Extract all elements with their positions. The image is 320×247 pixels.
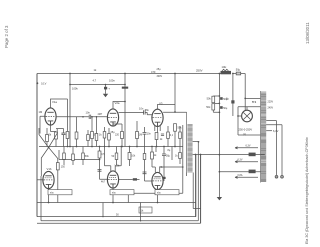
capacitor C16 V6 grid xyxy=(143,172,147,174)
node mid rail x99.5 xyxy=(99,146,101,148)
node mid rail x109 xyxy=(108,146,110,148)
wire x104.5 xyxy=(104,127,106,147)
capacitor C6 x164 lower xyxy=(162,154,166,156)
wire V3 cathode leads xyxy=(155,126,160,132)
wire HV box xyxy=(238,107,261,135)
svg-text:s/a: s/a xyxy=(50,191,54,195)
wire x67.5 vertical xyxy=(67,99,69,147)
node OT tap xyxy=(198,141,200,143)
wire V2b top leads xyxy=(105,147,122,172)
wire x180 xyxy=(179,126,181,147)
node x175 y112 xyxy=(174,111,176,113)
output transformer Tr2 primary xyxy=(187,112,193,172)
wire V1 cathode down xyxy=(51,125,57,132)
capacitor C15 V3 bypass xyxy=(161,134,164,136)
wire x88 xyxy=(87,130,89,147)
wire x76.5 vertical xyxy=(76,117,78,147)
wire fuse to B+ corner xyxy=(241,74,246,111)
node B+ x175 xyxy=(174,73,176,75)
node screen rail x70 xyxy=(69,84,71,86)
node x96.5 y117 xyxy=(96,116,98,118)
wire x175 vertical upper xyxy=(174,74,176,113)
cathode blob x164 xyxy=(162,177,165,179)
wire bottom loop 1 xyxy=(37,155,196,217)
node B+ x232.9 xyxy=(232,73,234,75)
wire x116.5 lower xyxy=(116,147,118,166)
node B+ x219.4 xyxy=(219,73,221,75)
wire top B+ rail xyxy=(37,73,221,75)
resistor R17 x180 xyxy=(179,132,182,139)
pin label box V6 xyxy=(155,190,179,195)
node y171.7 junction xyxy=(219,171,221,173)
svg-text:1k: 1k xyxy=(154,154,157,157)
wire rectifier top xyxy=(246,107,248,111)
node mid rail x137 xyxy=(136,146,138,148)
svg-text:4,7: 4,7 xyxy=(93,79,97,83)
selector terminal 2 xyxy=(281,175,284,178)
svg-text:+: + xyxy=(108,87,110,91)
wire C2 to ground xyxy=(105,85,107,92)
wire V3 cathode 2 xyxy=(156,140,158,147)
resistor R3 x47 xyxy=(46,135,49,142)
wire x180 lower xyxy=(179,147,181,165)
capacitor C3 coupling xyxy=(89,115,91,119)
fuse box on y171.7 xyxy=(249,170,256,174)
resistor R21 x144.5 lower xyxy=(143,154,146,160)
svg-text:25µ: 25µ xyxy=(157,68,162,71)
resistor R23 divider top xyxy=(212,96,215,103)
wire heater arrow y177.3 xyxy=(235,176,258,178)
svg-text:10n: 10n xyxy=(147,133,152,136)
fuse Si1 xyxy=(236,72,241,75)
wire V3 cathode xyxy=(157,126,159,132)
input terminal node xyxy=(36,82,38,84)
node x140.6 bus xyxy=(140,220,141,221)
wire heater arrow y161.7 xyxy=(235,161,258,163)
svg-text:50µ: 50µ xyxy=(223,107,228,110)
wire R26 down xyxy=(57,170,59,203)
choke L1 xyxy=(221,71,232,74)
svg-text:2k: 2k xyxy=(49,134,52,137)
wire V2b cathode down xyxy=(112,188,114,202)
svg-text:50µ: 50µ xyxy=(166,155,171,158)
wire x168 xyxy=(167,126,169,147)
wire choke to fuse xyxy=(233,73,237,75)
svg-text:4k7: 4k7 xyxy=(101,181,106,184)
wire V2 anode up xyxy=(113,102,125,109)
wire x152 xyxy=(151,147,153,153)
node divider mid xyxy=(219,103,221,105)
wire x175 vertical lower xyxy=(174,131,176,146)
wire x47 upper xyxy=(46,128,48,147)
resistor R26 on cross arm xyxy=(56,163,59,170)
wire x70 vertical xyxy=(69,74,71,147)
resistor R18 x64 lower xyxy=(63,153,66,160)
svg-text:100k: 100k xyxy=(72,87,78,91)
resistor R9 x152 lower xyxy=(151,152,154,159)
node mid rail x175 xyxy=(174,146,176,148)
wire V3 anode y112 to OT xyxy=(163,111,187,113)
wire y159.5 link xyxy=(59,150,100,160)
svg-text:240V: 240V xyxy=(268,106,274,109)
node mid rail x76.5 xyxy=(76,146,78,148)
svg-text:0,1V: 0,1V xyxy=(41,82,47,86)
capacitor C11 electrolytic xyxy=(231,100,234,103)
resistor R2 cathode xyxy=(55,132,58,139)
resistor R28 x96.5 xyxy=(95,134,98,141)
svg-text:1k: 1k xyxy=(160,138,163,141)
wire x109 xyxy=(108,128,110,147)
wire x103 drop xyxy=(102,203,104,217)
pin label box V2b xyxy=(110,190,134,195)
wire x129.5 lower xyxy=(129,147,131,167)
wire x144.5 xyxy=(144,127,146,147)
svg-text:10H: 10H xyxy=(222,65,227,69)
wire x99.5 lower xyxy=(100,147,108,180)
node x103 bus xyxy=(102,216,103,217)
wire rectifier plate left xyxy=(238,115,242,117)
svg-text:10n: 10n xyxy=(139,106,144,110)
capacitor C5 x144.5 xyxy=(143,133,147,135)
wire x144.5 lower xyxy=(145,147,152,182)
tube V6 xyxy=(152,172,163,189)
wire x219.4 vertical xyxy=(218,74,220,196)
node screen rail x125 xyxy=(124,84,126,86)
node gnd x113 xyxy=(112,202,114,204)
wire divider branch xyxy=(213,96,219,112)
tube V2a xyxy=(107,109,118,126)
svg-text:1M: 1M xyxy=(39,110,43,114)
resistor R12 on x175 xyxy=(174,124,177,132)
svg-text:50k: 50k xyxy=(206,106,211,109)
svg-text:V1b: V1b xyxy=(47,167,52,171)
node V6 anode join xyxy=(182,166,184,168)
connector box below bus xyxy=(139,207,152,213)
resistor R8 x137 xyxy=(136,132,139,139)
resistor R27 x73 lower xyxy=(72,154,75,161)
node HT x245.2 xyxy=(244,98,246,100)
pin label box V1b xyxy=(48,190,72,195)
wire screen rail y84.5 xyxy=(70,84,125,86)
resistor R20 x116.5 lower xyxy=(115,153,118,160)
wire V1 grid left xyxy=(40,116,45,133)
wire x73 lower xyxy=(72,147,74,166)
resistor R5 x92 xyxy=(91,132,94,139)
svg-text:10n: 10n xyxy=(86,110,91,114)
wire PT tap y130.7 xyxy=(266,130,272,132)
resistor R6 x122 xyxy=(121,132,124,139)
capacitor C14 electrolytic xyxy=(220,106,223,109)
wire x83 lower xyxy=(82,147,84,166)
power transformer Tr1 winding xyxy=(261,91,267,183)
node rect plate xyxy=(237,115,239,117)
svg-text:1k: 1k xyxy=(94,68,97,72)
node rail2 elcap xyxy=(105,84,107,86)
resistor R15 x109 xyxy=(108,134,111,141)
wire OT sec drop x195.5 xyxy=(195,155,197,217)
node x125 y101.5 xyxy=(124,101,126,103)
wire V1 anode coupling y117 xyxy=(56,116,89,118)
wire x164 lower xyxy=(163,147,165,182)
wire x125 lower xyxy=(124,85,126,147)
wire C1 xyxy=(56,129,64,147)
rectifier V7 xyxy=(242,110,253,122)
node x104.5 rail xyxy=(104,146,105,147)
node mid rail x67.5 xyxy=(67,146,69,148)
svg-text:Page 2 of 3: Page 2 of 3 xyxy=(4,25,9,48)
node B+ x70 xyxy=(69,73,71,75)
wire mid rail y146.5 xyxy=(39,146,183,148)
wire ground bus y202.5 xyxy=(37,202,196,204)
node mid rail x70 xyxy=(69,146,71,148)
svg-text:1k: 1k xyxy=(99,134,102,137)
svg-text:250-0-250V: 250-0-250V xyxy=(239,128,253,132)
node OT sec x195.5 xyxy=(195,154,197,156)
wire R2 to rail xyxy=(55,139,57,147)
capacitor C7 coupling xyxy=(144,110,146,114)
svg-text:0,8A: 0,8A xyxy=(238,174,243,177)
svg-text:50k: 50k xyxy=(85,155,90,158)
svg-text:50: 50 xyxy=(116,214,119,217)
node mid rail x129.5 xyxy=(129,146,131,148)
capacitor C13 electrolytic xyxy=(220,97,223,100)
resistor R22 x180 lower xyxy=(179,153,182,159)
svg-text:8µ: 8µ xyxy=(168,149,171,152)
node mid rail x152 xyxy=(151,146,153,148)
wire x122 xyxy=(113,124,122,147)
svg-text:10k: 10k xyxy=(131,155,136,158)
wire x137 xyxy=(136,121,138,147)
wire heater arrow y147.8 xyxy=(235,147,258,149)
svg-text:470: 470 xyxy=(151,70,156,74)
tube V2b xyxy=(107,171,118,188)
svg-text:6,3V: 6,3V xyxy=(246,145,251,148)
svg-text:300V: 300V xyxy=(157,75,163,78)
node mid rail x122 xyxy=(121,146,123,148)
wire cross left arm xyxy=(39,128,49,176)
svg-text:(L): (L) xyxy=(243,133,246,136)
node B+ x125 xyxy=(124,73,126,75)
node mid rail x92 xyxy=(91,146,93,148)
wire V1b grid stub xyxy=(37,179,43,181)
node gnd x157.5 xyxy=(157,202,159,204)
resistor R14 x104.5 xyxy=(103,132,106,139)
node divider bottom xyxy=(219,111,221,113)
wire OT sec drop x200.5 xyxy=(200,155,202,224)
wire x140.6 drop xyxy=(140,203,142,221)
svg-text:Ela 3C (Dynacord und Siebengeb: Ela 3C (Dynacord und Siebengebirgsdudel)… xyxy=(305,137,309,244)
resistor R4b on x76.5 xyxy=(75,132,78,139)
wire V2 anode coupling y112 xyxy=(119,111,144,113)
wire x92 xyxy=(91,117,93,147)
wire x96.5 xyxy=(96,117,98,147)
svg-text:220V: 220V xyxy=(268,101,274,104)
svg-text:6,3V: 6,3V xyxy=(238,159,243,162)
svg-text:6,3V: 6,3V xyxy=(273,129,279,133)
svg-text:0,1: 0,1 xyxy=(170,134,174,137)
tube V1b xyxy=(43,171,54,188)
wire y154.6 long tap xyxy=(209,154,265,156)
capacitor C1 bypass xyxy=(62,133,66,135)
wire V2b grid right xyxy=(119,178,133,180)
wire x232.9 vertical xyxy=(232,74,234,117)
wire PT tap y120.6 to selector xyxy=(266,121,276,176)
svg-text:50µ: 50µ xyxy=(236,67,241,71)
wire HT link y98.4 xyxy=(245,97,260,99)
fuse box on y154.6 xyxy=(249,153,256,157)
svg-text:50k: 50k xyxy=(207,98,212,101)
wire x125 vertical xyxy=(124,74,126,85)
node x121.2 rail xyxy=(121,146,122,147)
node OT sec x200.5 xyxy=(200,154,202,156)
node mid rail x164 xyxy=(163,146,165,148)
resistor R25 V3 cathode xyxy=(155,133,158,140)
node x99.5 y159.5 xyxy=(99,159,101,161)
tube V3 xyxy=(152,109,163,126)
wire OT left bottom xyxy=(186,173,188,177)
svg-text:s/a: s/a xyxy=(112,191,116,195)
ground bottom of divider line xyxy=(218,195,220,197)
resistor R16 x168 xyxy=(167,132,170,139)
resistor R4 on x67.5 xyxy=(66,132,69,139)
svg-text:56k: 56k xyxy=(145,109,150,112)
tube V1a xyxy=(45,108,56,125)
node y154.6 junction xyxy=(219,154,221,156)
node y117 x83 xyxy=(82,116,84,118)
wire bottom loop 2 xyxy=(41,142,198,221)
capacitor C8 electrolytic on x125 xyxy=(122,87,128,89)
wire OT secondary y154.5 xyxy=(193,154,209,156)
svg-text:V3: V3 xyxy=(159,102,163,106)
wire bottom loop 3 xyxy=(37,155,201,224)
wire V1 anode up xyxy=(51,99,68,108)
wire after blob xyxy=(137,178,140,180)
wire cross right arm xyxy=(49,129,58,163)
svg-text:4M7: 4M7 xyxy=(98,113,103,116)
svg-text:13/08/2011: 13/08/2011 xyxy=(305,22,310,44)
resistor R10 x99.5 lower xyxy=(98,151,101,158)
svg-text:150: 150 xyxy=(61,165,66,168)
grid stopper blob V2b xyxy=(133,178,137,180)
selector terminal 1 xyxy=(275,175,278,178)
wire left edge vertical xyxy=(36,74,38,217)
svg-text:s/a: s/a xyxy=(157,191,161,195)
svg-text:100n: 100n xyxy=(109,79,115,83)
wire V6 top leads xyxy=(152,159,183,172)
node x157 rail xyxy=(156,146,158,148)
svg-text:250V: 250V xyxy=(196,69,203,73)
wire x156 stub xyxy=(155,147,157,153)
wire x64 lower xyxy=(63,147,65,166)
wire OT bottom step xyxy=(193,173,201,209)
resistor R13 x88 xyxy=(87,135,90,141)
resistor R11 x129.5 lower xyxy=(128,153,131,160)
wire OT tap y141.5 xyxy=(193,141,199,143)
node cross xyxy=(48,147,50,149)
svg-text:1M: 1M xyxy=(139,134,142,137)
wire V6 cathode down xyxy=(157,190,159,203)
capacitor C2 electrolytic xyxy=(104,87,107,90)
wire C7 to V3 grid xyxy=(145,112,152,114)
wire V3 top lead xyxy=(158,105,176,110)
wire V1b cathode down xyxy=(48,189,50,203)
capacitor C12 grid x99.5 xyxy=(98,170,102,172)
wire PT tap y124.7 to selector xyxy=(266,125,282,176)
node gnd x48.5 xyxy=(48,202,50,204)
svg-text:220: 220 xyxy=(115,134,120,137)
resistor R19 x83 lower xyxy=(82,153,85,160)
wire V6 anode down to OT bottom xyxy=(128,125,183,203)
svg-text:1k: 1k xyxy=(175,155,178,158)
node divider top xyxy=(219,95,221,97)
wire x172 lower xyxy=(171,147,173,161)
svg-text:V1a: V1a xyxy=(52,100,57,104)
resistor R24 divider bottom xyxy=(212,104,215,110)
node x92 y117 xyxy=(91,116,93,118)
ground below C2 xyxy=(105,92,107,94)
svg-text:50: 50 xyxy=(112,155,115,158)
svg-text:8µ: 8µ xyxy=(226,98,229,101)
wire C3 to V2 grid xyxy=(91,116,108,118)
svg-text:Tr1: Tr1 xyxy=(252,100,257,104)
wire y171.7 tap xyxy=(219,171,261,173)
